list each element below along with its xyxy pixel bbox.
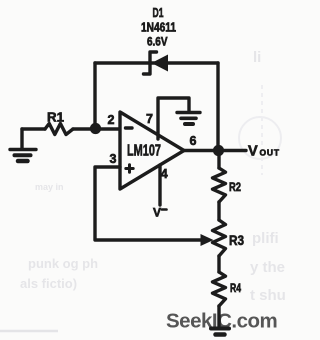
wire R4 to bottom ground bbox=[217, 306, 220, 327]
svg-text:R2: R2 bbox=[229, 182, 241, 194]
inverting input minus sign bbox=[126, 126, 133, 129]
op-amp LM107 body bbox=[120, 112, 184, 189]
svg-text:R4: R4 bbox=[230, 283, 241, 295]
wire R2 to R3 bbox=[217, 202, 220, 220]
svg-text:6: 6 bbox=[190, 134, 197, 148]
svg-text:R1: R1 bbox=[47, 111, 64, 125]
svg-text:R3: R3 bbox=[229, 233, 244, 248]
wire output node down to R2 bbox=[217, 151, 220, 169]
wire R3 to R4 bbox=[217, 256, 220, 272]
svg-text:li: li bbox=[253, 49, 261, 66]
node: output junction dot bbox=[213, 145, 224, 156]
ground (bottom) bbox=[211, 329, 229, 335]
svg-text:V: V bbox=[153, 206, 161, 220]
svg-text:4: 4 bbox=[161, 167, 168, 181]
svg-text:3: 3 bbox=[110, 152, 117, 166]
svg-text:OUT: OUT bbox=[260, 148, 280, 158]
ground (pin 7) bbox=[177, 113, 200, 125]
svg-text:punk og ph: punk og ph bbox=[28, 256, 98, 271]
svg-text:t shu: t shu bbox=[250, 287, 286, 304]
zener diode D1 triangle bbox=[152, 55, 169, 72]
non-inverting input plus sign bbox=[126, 165, 133, 172]
svg-text:7: 7 bbox=[146, 112, 153, 126]
svg-text:may in: may in bbox=[35, 182, 64, 192]
svg-text:2: 2 bbox=[108, 113, 115, 127]
wire R1 to inverting input pin 2 bbox=[73, 127, 120, 130]
resistor R4 bbox=[213, 272, 226, 306]
svg-text:D1: D1 bbox=[153, 6, 164, 20]
wire top feedback loop horizontal bbox=[95, 61, 218, 64]
faint bleed-through figure right edge bbox=[239, 117, 281, 159]
svg-text:als fictio): als fictio) bbox=[20, 276, 77, 291]
wire input horizontal to R1 bbox=[22, 127, 45, 130]
faint bleed-through text right edge bbox=[20, 49, 286, 304]
svg-text:V: V bbox=[248, 144, 258, 160]
wire output pin 6 to VOUT bbox=[184, 149, 246, 152]
node: junction dot inverting input bbox=[90, 123, 101, 134]
wire pin 3 feedback to R3 wiper bbox=[95, 167, 201, 240]
faint bleed-through rule bottom left bbox=[0, 330, 58, 333]
svg-text:y the: y the bbox=[250, 259, 285, 276]
svg-text:6.6V: 6.6V bbox=[147, 35, 168, 49]
svg-text:1N4611: 1N4611 bbox=[141, 21, 176, 35]
resistor R2 bbox=[213, 168, 226, 202]
svg-text:LM107: LM107 bbox=[127, 142, 161, 159]
resistor R1 bbox=[45, 124, 73, 135]
resistor R3 (potentiometer) bbox=[213, 220, 226, 256]
svg-text:plifi: plifi bbox=[252, 230, 279, 247]
R3 wiper arrowhead bbox=[201, 234, 214, 246]
zener diode D1 cathode bar bbox=[144, 52, 157, 74]
wire pin 7 to ground bbox=[158, 98, 189, 139]
wire right vertical from top loop to output node bbox=[216, 63, 219, 148]
wire left vertical from top loop to inverting node bbox=[93, 63, 96, 126]
ground (left input) bbox=[10, 129, 36, 161]
wire pin 4 down to V- bbox=[158, 165, 161, 205]
